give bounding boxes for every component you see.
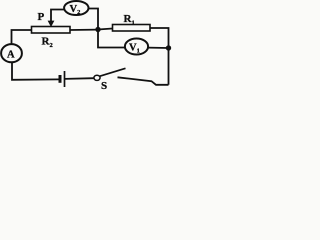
battery short plate (59, 75, 62, 83)
ammeter A (1, 44, 22, 62)
wire R2 right to node J1 (70, 29, 98, 31)
voltmeter V1 (125, 39, 148, 55)
wire V1 right to node J2 (148, 47, 169, 49)
wire R1 right down right side (150, 28, 169, 85)
wire ammeter A top to rheostat R2 left (12, 30, 32, 45)
wire bottom right to switch contact (118, 77, 169, 85)
resistor R1 body (113, 25, 151, 32)
resistor R2 body (32, 27, 71, 34)
switch S pivot terminal (94, 75, 100, 80)
wire voltmeter V2 right to node J1 (89, 9, 99, 30)
wire node J1 down to voltmeter V1 (98, 30, 125, 48)
svg-text:A: A (7, 49, 15, 60)
wire switch to battery positive plate (65, 77, 94, 80)
wire node J1 to resistor R1 (98, 29, 113, 30)
voltmeter V2 (64, 1, 88, 15)
node J2 junction dot (166, 45, 171, 50)
wire battery to ammeter A bottom (12, 63, 59, 80)
node J1 junction dot (95, 27, 100, 32)
svg-text:S: S (101, 80, 107, 92)
switch S blade (100, 68, 126, 76)
battery long plate (64, 71, 66, 87)
slider wiper arrow of R2 (51, 10, 65, 23)
svg-text:P: P (38, 11, 45, 23)
